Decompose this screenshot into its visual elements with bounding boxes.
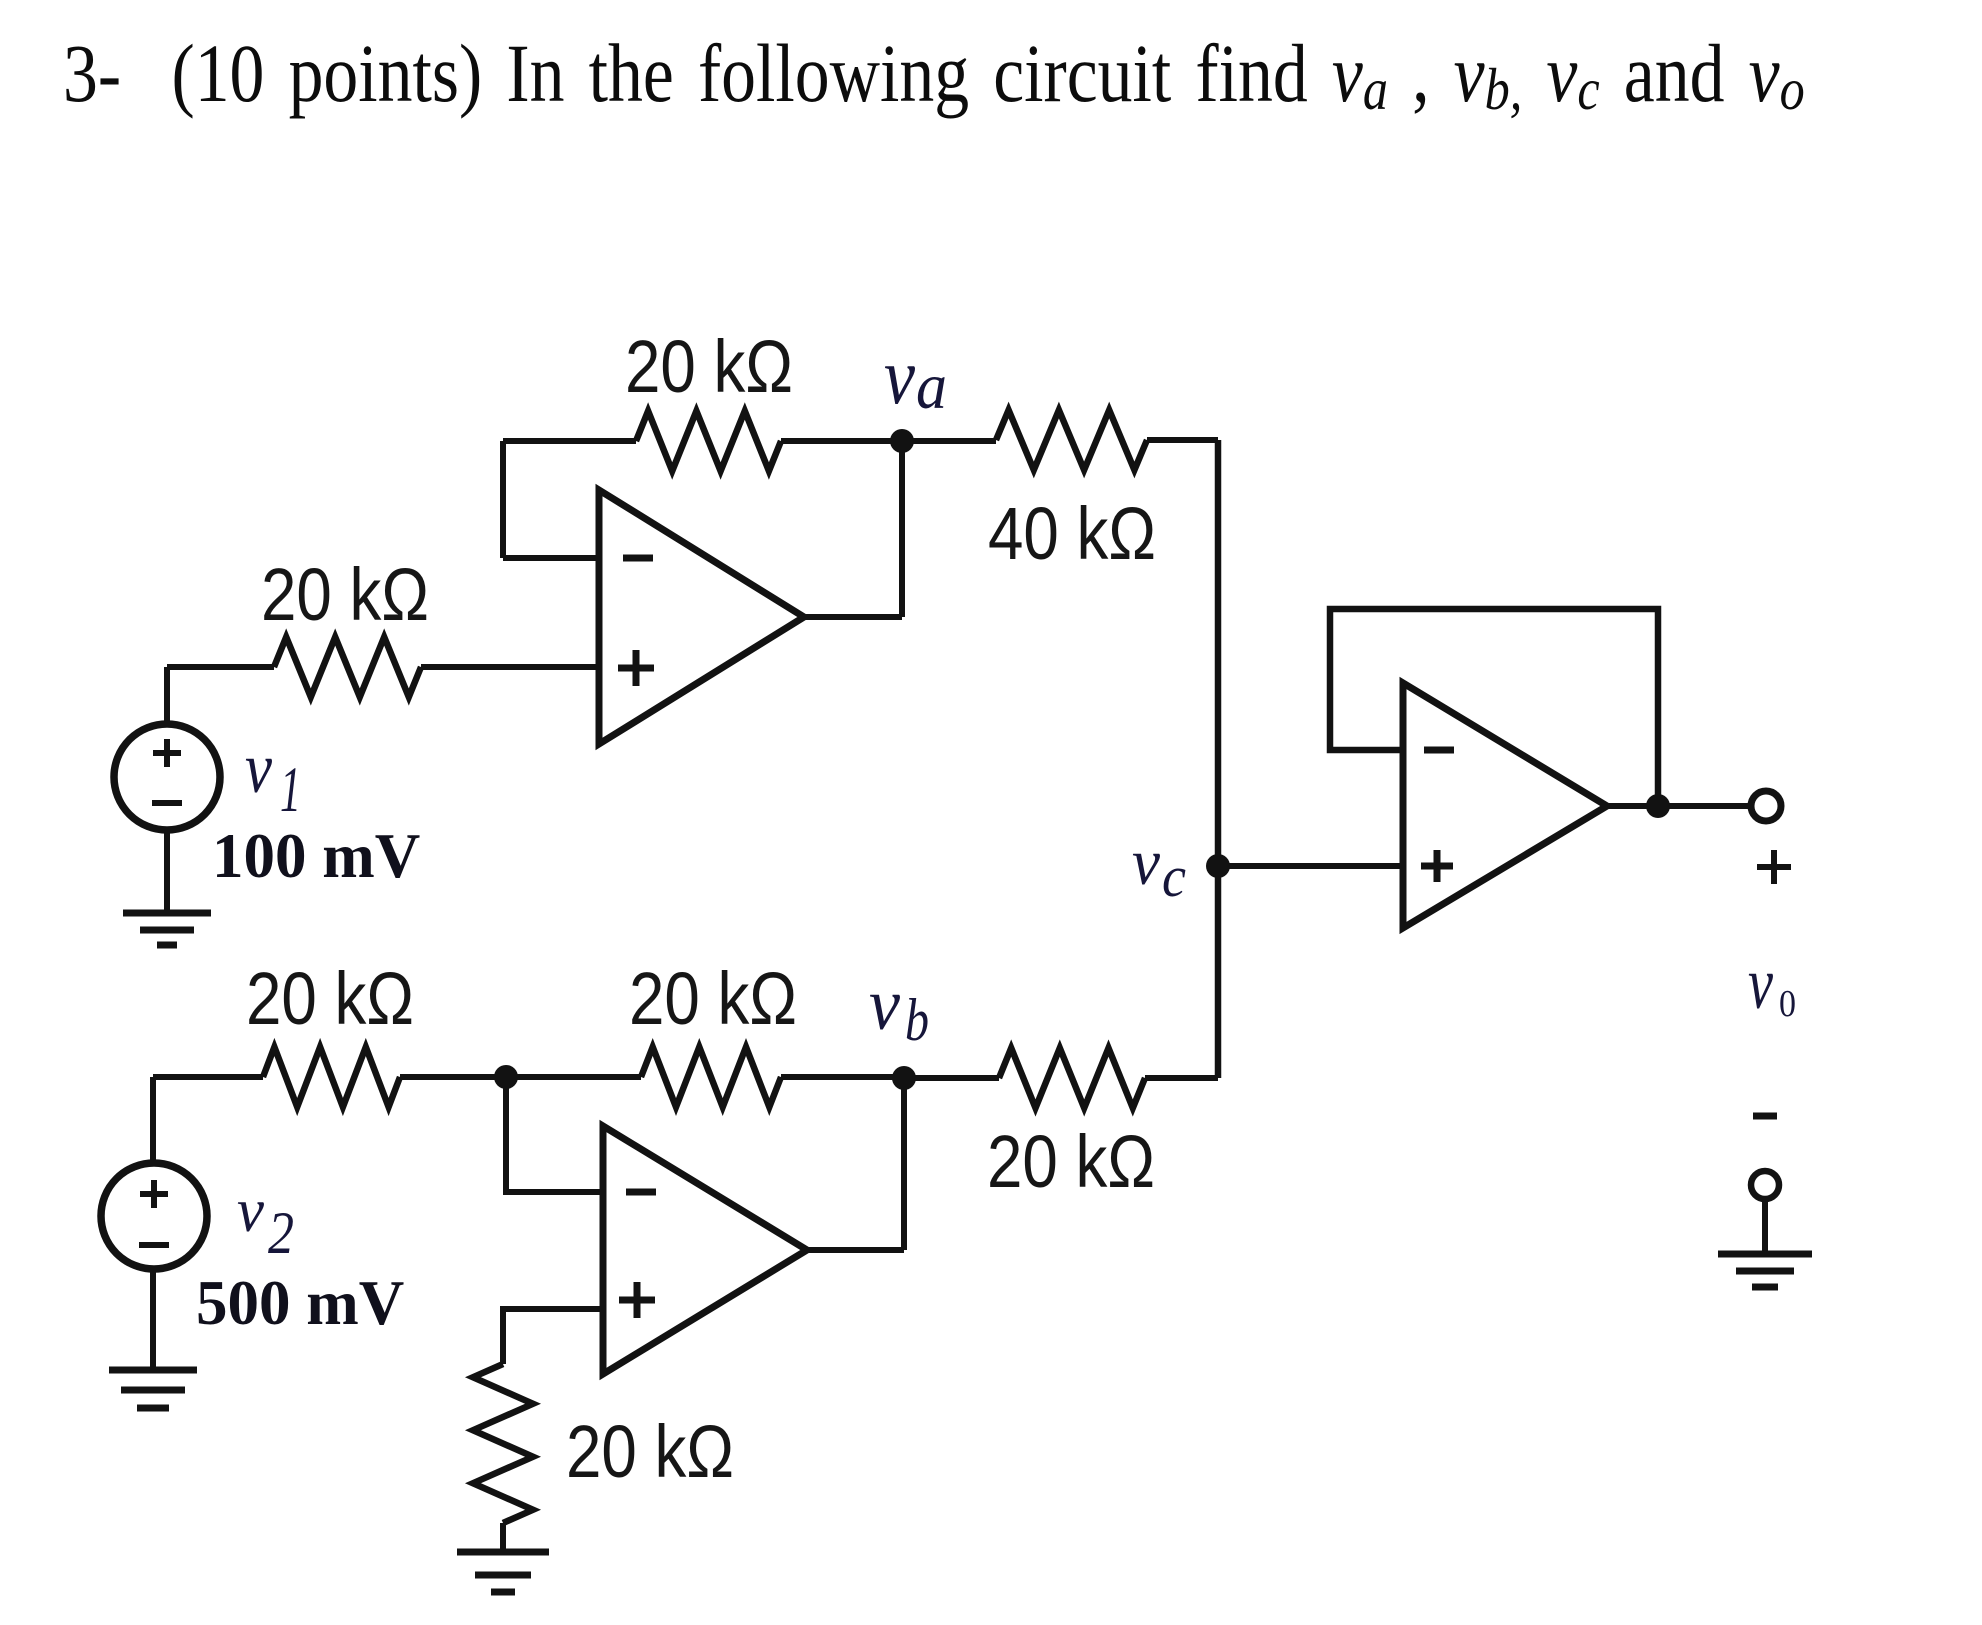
svg-text:20 kΩ: 20 kΩ — [246, 957, 414, 1040]
svg-text:v: v — [884, 333, 915, 421]
wire resistor to U1 + input — [421, 664, 599, 670]
wire v1 top stem — [164, 667, 170, 724]
resistor R6, 20 kOhm (U2 + input to ground) — [473, 1364, 533, 1523]
svg-text:2: 2 — [268, 1200, 294, 1266]
svg-text:v: v — [1132, 826, 1161, 899]
resistor R7, 20 kOhm (vb to vc) — [999, 1048, 1145, 1108]
label 20 kOhm (v1 input) — [261, 553, 429, 636]
wire 40k to corner — [1147, 437, 1218, 443]
wire v2 bottom stem — [150, 1269, 156, 1370]
ground (below grounding resistor) — [457, 1552, 549, 1592]
output terminal vo (open circle) — [1751, 791, 1781, 821]
ground (output reference) — [1718, 1254, 1812, 1287]
wire junction riser to U2 - input — [506, 1077, 603, 1192]
label 20 kOhm (v2 input) — [246, 957, 414, 1040]
resistor R5, 20 kOhm (U2 feedback) — [641, 1047, 781, 1107]
wire U1 - input stub — [503, 555, 599, 561]
wire summing riser (va/vb to vc) — [1215, 440, 1222, 1078]
wire v1 to resistor — [167, 664, 274, 670]
wire 20k to summing riser — [1145, 1075, 1218, 1081]
wire feedback resistor to node va — [781, 438, 902, 444]
label vo — [1748, 943, 1796, 1025]
node vb — [892, 1066, 916, 1090]
resistor R2, 20 kOhm (U1 feedback) — [636, 411, 781, 471]
label 20 kOhm (U1 feedback) — [625, 325, 793, 408]
wire v1 bottom stem — [164, 830, 170, 913]
svg-text:c: c — [1162, 844, 1186, 909]
svg-text:a: a — [916, 350, 947, 423]
label 40 kOhm — [988, 492, 1156, 575]
wire v2 top stem — [150, 1077, 156, 1163]
label 100 mV — [212, 821, 420, 891]
wire v2 resistor to junction and on to feedback resistor — [400, 1074, 641, 1080]
svg-text:100 mV: 100 mV — [212, 821, 420, 891]
svg-text:500 mV: 500 mV — [196, 1268, 404, 1338]
node U3 output — [1646, 794, 1670, 818]
resistor R1, 20 kOhm (v1 input) — [274, 637, 421, 697]
wire U1 feedback top — [503, 438, 636, 444]
wire U1 output — [804, 614, 902, 620]
label v1 — [245, 728, 301, 826]
op-amp U2 — [603, 1126, 807, 1374]
label 500 mV — [196, 1268, 404, 1338]
wire va to 40k resistor — [902, 438, 996, 444]
node junction (U2 inverting summing node) — [494, 1065, 518, 1089]
node vc — [1206, 854, 1230, 878]
svg-text:20 kΩ: 20 kΩ — [629, 957, 797, 1040]
svg-text:v: v — [869, 964, 900, 1046]
svg-text:20 kΩ: 20 kΩ — [261, 553, 429, 636]
resistor R3, 40 kOhm (va to vc) — [996, 410, 1147, 470]
label va — [884, 333, 947, 423]
label vc — [1132, 826, 1186, 909]
ground (below v1) — [123, 913, 211, 945]
svg-text:v: v — [237, 1177, 264, 1245]
voltage source V1, 100 mV — [114, 724, 220, 830]
wire U3 feedback — [1330, 609, 1658, 806]
label + (output polarity) — [1757, 850, 1791, 884]
op-amp U3 — [1403, 683, 1607, 928]
wire vc to U3 + input — [1218, 863, 1403, 869]
wire U3 output — [1607, 803, 1751, 809]
resistor R4, 20 kOhm (v2 input) — [263, 1047, 400, 1107]
label 20 kOhm (grounding resistor) — [566, 1410, 734, 1493]
wire bottom terminal stem — [1762, 1199, 1768, 1254]
wire feedback resistor to node vb — [781, 1074, 904, 1080]
svg-text:20 kΩ: 20 kΩ — [987, 1120, 1155, 1203]
svg-text:40 kΩ: 40 kΩ — [988, 492, 1156, 575]
svg-text:v: v — [1748, 943, 1773, 1025]
wire U2 + input stub — [503, 1309, 603, 1364]
wire grounding resistor stem — [500, 1523, 506, 1552]
wire v2 to first resistor — [153, 1074, 263, 1080]
op-amp U1 — [599, 490, 804, 744]
svg-text:b: b — [905, 987, 929, 1053]
label vb — [869, 964, 929, 1053]
ground (below v2) — [109, 1370, 197, 1408]
svg-text:20 kΩ: 20 kΩ — [625, 325, 793, 408]
label 20 kOhm (U2 feedback) — [629, 957, 797, 1040]
label 20 kOhm (vb to vc) — [987, 1120, 1155, 1203]
wire U1 output riser to va — [899, 441, 905, 617]
wire U1 feedback left riser — [500, 441, 506, 558]
wire U2 output riser to vb — [901, 1078, 907, 1250]
voltage source V2, 500 mV — [101, 1163, 207, 1269]
svg-text:0: 0 — [1779, 983, 1796, 1025]
node va — [890, 429, 914, 453]
title text — [63, 25, 1805, 121]
svg-text:20 kΩ: 20 kΩ — [566, 1410, 734, 1493]
svg-text:v: v — [245, 728, 272, 808]
wire vb to 20k resistor — [904, 1075, 999, 1081]
svg-text:1: 1 — [280, 754, 301, 826]
wire U2 output — [807, 1247, 904, 1253]
label v2 — [237, 1177, 294, 1266]
bottom terminal (open circle) — [1751, 1171, 1779, 1199]
label - (output polarity) — [1753, 1113, 1777, 1120]
